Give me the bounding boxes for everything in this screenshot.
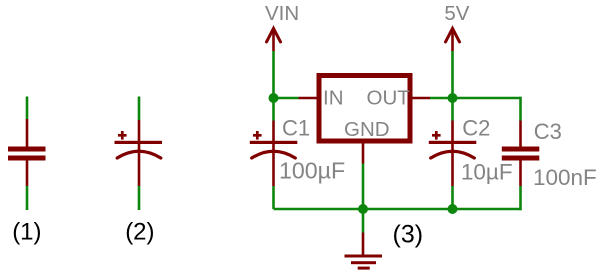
regulator U1 box	[319, 76, 410, 142]
svg-text:C1: C1	[282, 116, 310, 141]
wire node to IN pin	[274, 97, 299, 100]
plate top	[502, 147, 540, 152]
wire top lead	[26, 97, 29, 120]
pin top	[26, 119, 29, 147]
plate straight	[250, 141, 297, 144]
plus sign	[118, 134, 127, 137]
wire GND pin to rail	[362, 164, 365, 210]
wire C2 to bottom rail	[451, 186, 454, 209]
capacitor C-unpolarized symbol (1)	[8, 97, 46, 211]
svg-text:5V: 5V	[444, 2, 469, 25]
svg-text:10µF: 10µF	[461, 159, 513, 184]
junction node VIN	[269, 93, 279, 103]
supply arrow VIN	[267, 28, 281, 51]
plate curved	[252, 151, 296, 158]
pin GND of regulator	[362, 144, 365, 164]
pin IN	[299, 97, 317, 100]
svg-text:IN: IN	[323, 86, 344, 109]
wire C3 to bottom rail	[519, 186, 522, 210]
plus sign	[432, 134, 441, 137]
capacitor C2	[429, 98, 477, 209]
pin top	[519, 121, 522, 147]
pin bottom	[272, 144, 275, 186]
pin OUT	[413, 97, 431, 100]
svg-text:(3): (3)	[393, 220, 424, 248]
wire node to C3 top	[453, 97, 521, 121]
plate curved	[117, 151, 161, 158]
plate straight	[115, 141, 163, 144]
svg-text:VIN: VIN	[265, 2, 299, 25]
plus sign	[253, 134, 262, 137]
wire node to C2	[451, 98, 454, 121]
svg-text:(2): (2)	[125, 219, 154, 246]
wire top lead	[138, 97, 141, 121]
junction node 5V	[448, 93, 458, 103]
junction node GND rail	[358, 204, 368, 214]
wire bottom lead	[26, 186, 29, 210]
wire VIN to node	[272, 51, 275, 98]
pin bottom	[138, 144, 141, 186]
wire node to C1	[272, 98, 275, 121]
plate bottom	[8, 156, 46, 161]
svg-text:C3: C3	[534, 119, 562, 144]
pin top	[451, 121, 454, 143]
svg-text:100nF: 100nF	[533, 165, 597, 190]
pin bottom	[26, 161, 29, 187]
svg-text:100µF: 100µF	[279, 157, 345, 183]
wire OUT to node	[430, 97, 453, 100]
capacitor polarized symbol (2)	[115, 97, 163, 211]
plate bottom	[502, 156, 540, 161]
svg-text:GND: GND	[344, 118, 390, 141]
svg-text:C2: C2	[462, 116, 490, 141]
pin bottom	[451, 144, 454, 186]
pin top	[138, 120, 141, 142]
ground symbol	[345, 233, 383, 270]
pin top	[272, 121, 275, 143]
plate straight	[429, 141, 477, 144]
junction node C2 bottom	[448, 204, 458, 214]
wire rail to ground	[362, 209, 365, 233]
pin bottom	[519, 161, 522, 187]
capacitor C1	[250, 98, 297, 209]
wire bottom lead	[138, 186, 141, 210]
supply arrow 5V	[446, 28, 460, 51]
plate curved	[431, 151, 475, 158]
capacitor C3	[502, 121, 540, 211]
wire 5V to node	[451, 51, 454, 98]
svg-text:(1): (1)	[12, 219, 41, 246]
wire C1 to bottom rail	[272, 186, 275, 209]
svg-text:OUT: OUT	[367, 86, 411, 109]
wire bottom rail	[274, 208, 521, 211]
plate top	[8, 147, 46, 152]
